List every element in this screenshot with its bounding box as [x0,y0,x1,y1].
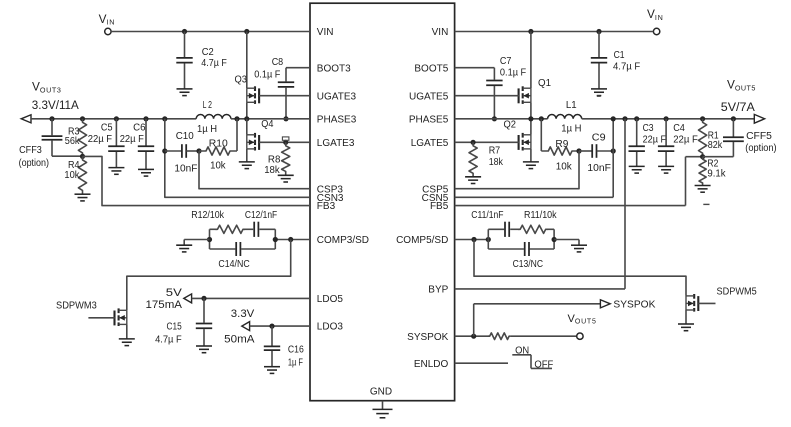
svg-text:10k: 10k [556,162,573,173]
wire UGATE5 [455,95,519,97]
artifact dash near FB5 [703,203,709,205]
svg-text:18k: 18k [489,157,504,168]
svg-text:3.3V/11A: 3.3V/11A [32,100,79,112]
IC controller body [310,3,455,401]
junction C3 on VOUT5 rail [634,116,639,121]
ground COMP5 network [571,245,587,252]
label VIN right [647,7,663,22]
svg-text:CFF3: CFF3 [19,145,42,156]
capacitor CFF3 [42,119,83,156]
svg-text:C9: C9 [592,133,606,144]
capacitor C12 [254,222,258,237]
node ON OFF logic symbol [512,355,552,369]
resistor R8 [282,142,290,175]
wire BYP net [455,119,625,289]
svg-text:COMP5/SD: COMP5/SD [396,235,448,246]
capacitor C4 [658,119,674,167]
ground IC GND [373,401,393,418]
junction R8 on LGATE3 [283,140,288,145]
junction C7 on PHASE5 [492,116,497,121]
capacitor C3 [629,119,645,167]
ground Q2 source [523,162,539,169]
pin GND label [370,386,392,397]
junction C8 on PHASE3 [283,116,288,121]
svg-text:C16: C16 [288,344,304,355]
capacitor C9 [579,144,613,158]
svg-text:R9: R9 [555,139,568,150]
node VOUT3 output arrow [21,115,31,123]
svg-text:(option): (option) [19,158,49,169]
capacitor C15 [196,298,212,346]
label R10 value [209,139,228,172]
svg-text:SDPWM5: SDPWM5 [717,286,758,297]
resistor R9 [541,147,579,155]
junction CSN3 branch on VOUT3 rail [162,116,167,121]
wire LGATE5 [455,141,519,143]
ground SDPWM3 [119,339,135,346]
wire SDPWM5 drain net [474,240,686,296]
wire LGATE3 [259,141,310,143]
junction R10 branch on VOUT3 rail [234,116,239,121]
svg-text:5V/7A: 5V/7A [721,102,755,114]
label L2 value [197,100,217,135]
label C3 value [643,123,667,146]
svg-text:Q4: Q4 [261,119,274,130]
svg-text:56k: 56k [65,136,81,147]
svg-text:ON: ON [515,346,529,357]
artifact mark above R8 [282,137,289,140]
svg-text:LDO3: LDO3 [317,322,344,333]
ground C15 [196,346,212,353]
junction R1 on VOUT5 rail [700,116,705,121]
junction C10 left node [162,148,167,153]
junction R7 on LGATE5 [471,140,476,145]
resistor R4 [78,156,86,194]
label C14/NC [218,259,249,270]
label C8 value [254,57,283,81]
wire LDO5 [192,297,310,299]
transistor SDPWM5 [686,294,716,324]
label R2 value [707,159,726,180]
svg-text:R11/10k: R11/10k [524,210,557,221]
capacitor CFF5 [703,119,744,157]
junction Q1 source on PHASE5 [528,116,533,121]
wire UGATE3 [259,95,310,97]
node LDO3 arrow [242,322,250,331]
wire ENLDO pin [455,362,508,364]
capacitor C13 [525,242,529,256]
svg-text:LDO5: LDO5 [317,294,344,305]
svg-text:1µ H: 1µ H [561,124,581,135]
transistor Q4 [247,119,259,162]
ground R7 [465,177,481,184]
wire SYSPOK output branch [474,304,601,336]
ground C3 [629,166,645,173]
wire CSP5 net [455,151,579,189]
node VOUT5 sense terminal [577,333,583,339]
resistor R9 branch wire [540,119,542,151]
node VIN right terminal [653,28,659,34]
wire COMP3/SD pin [275,239,310,241]
label C2 value [201,47,227,69]
junction COMP3 network right [273,237,278,242]
label 5V 175mA [146,287,183,311]
svg-text:C6: C6 [133,123,146,134]
wire CSP3 net [199,151,310,189]
resistor R11 [518,225,548,233]
svg-text:3.3V: 3.3V [231,308,255,320]
inductor L2 [196,114,231,118]
label 3.3V/11A [32,100,79,112]
ground R8 [278,175,294,182]
svg-text:OFF: OFF [534,360,553,371]
svg-text:C4: C4 [673,123,685,134]
svg-text:VIN: VIN [317,27,334,38]
junction C15 on LDO5 [201,296,206,301]
inductor L1 [548,115,582,119]
junction R9 C9 node [576,148,581,153]
svg-text:L1: L1 [566,100,577,111]
junction R3 R4 divider node [80,154,85,159]
transistor Q1 [519,32,531,119]
junction R3 on VOUT3 rail [80,116,85,121]
svg-text:82k: 82k [708,140,723,151]
label CFF5 option [745,131,776,154]
junction Q4 drain on VOUT3 rail [244,116,249,121]
ground R4 [75,194,91,201]
capacitor C1 [591,32,607,89]
svg-text:0.1µ F: 0.1µ F [254,70,280,81]
wire CSN5 net [455,119,614,198]
wire BOOT3 [286,67,310,69]
label SDPWM5 [717,286,758,297]
ground C6 [138,169,154,176]
ground C16 [264,367,280,374]
label C15 value [155,322,182,346]
svg-text:C11/1nF: C11/1nF [471,210,503,221]
svg-text:SYSPOK: SYSPOK [613,299,655,310]
wire COMP5 network frame [488,229,554,249]
wire BOOT5 [455,67,495,69]
junction COMP3 network left [207,237,212,242]
svg-text:1µ H: 1µ H [197,124,217,135]
svg-text:UGATE5: UGATE5 [409,91,449,102]
svg-text:CFF5: CFF5 [746,131,772,142]
svg-text:1µ F: 1µ F [288,357,303,368]
svg-text:175mA: 175mA [146,299,183,311]
capacitor C11 [505,222,509,237]
capacitor C7 [486,68,502,119]
resistor SYSPOK series [488,333,510,340]
capacitor C6 [138,119,154,170]
junction C2 on VIN [182,29,187,34]
svg-text:SDPWM3: SDPWM3 [56,301,97,312]
junction C5 on VOUT3 rail [114,116,119,121]
label R1 value [708,130,723,151]
svg-text:10nF: 10nF [587,163,611,174]
wire FB3 net [83,156,311,205]
resistor R10 [199,119,237,155]
svg-text:R8: R8 [268,155,281,166]
ground R2 [695,186,711,193]
IC right pin labels [396,27,449,370]
label R11/10k [524,210,557,221]
wire COMP3 network frame [210,229,276,249]
svg-text:C8: C8 [272,57,284,68]
svg-text:PHASE3: PHASE3 [317,114,357,125]
label Q4 [261,119,274,130]
svg-text:10k: 10k [64,170,80,181]
label C6 value [120,123,146,146]
junction C6 on VOUT3 rail [143,116,148,121]
svg-text:C15: C15 [167,322,183,333]
label VOUT3 [32,80,61,95]
wire FB5 net [455,157,703,206]
junction SYSPOK branch [471,334,476,339]
junction C1 on VIN [596,29,601,34]
junction SDPWM3 tap on COMP3 [288,237,293,242]
wire COMP3 ground stub [184,240,209,246]
node VIN input terminal [105,28,111,34]
wire VIN left rail [111,31,310,33]
wire COMP5/SD pin [455,239,489,241]
svg-text:C10: C10 [176,131,194,142]
ground SDPWM5 [678,324,694,331]
svg-text:22µ F: 22µ F [88,134,112,145]
svg-text:VIN: VIN [432,27,449,38]
ground C2 [177,89,193,96]
svg-text:GND: GND [370,386,392,397]
svg-text:PHASE5: PHASE5 [409,114,449,125]
svg-text:BYP: BYP [428,285,448,296]
wire LDO3 [250,325,310,327]
label R4 value [64,160,80,181]
node VOUT5 output arrow [754,114,764,123]
transistor Q3 [247,32,259,119]
svg-text:Q2: Q2 [504,120,517,131]
label R9 value [555,139,572,173]
svg-text:SYSPOK: SYSPOK [407,332,448,343]
label C7 value [500,56,526,79]
resistor R12 [216,225,246,233]
svg-text:L 2: L 2 [203,100,213,111]
svg-text:COMP3/SD: COMP3/SD [317,235,369,246]
svg-text:4.7µ F: 4.7µ F [613,61,640,72]
label C9 value [587,133,611,174]
svg-text:18k: 18k [264,165,280,176]
label C13/NC [513,259,543,270]
wire VOUT3 rail to L2 [31,118,196,120]
capacitor C14 [236,242,240,256]
svg-text:22µ F: 22µ F [120,134,144,145]
wire SDPWM3 drain net [127,240,291,311]
svg-text:(option): (option) [745,143,776,154]
junction CFF5 on VOUT5 rail [731,116,736,121]
junction C16 on LDO3 [269,324,274,329]
label R7 value [489,145,504,168]
svg-text:4.7µ F: 4.7µ F [155,335,182,346]
svg-text:22µ F: 22µ F [643,135,667,146]
junction BYP on VOUT5 rail [622,116,627,121]
wire to VOUT5 sense terminal [511,335,577,337]
svg-text:LGATE5: LGATE5 [411,138,449,149]
svg-text:R10: R10 [209,139,228,150]
junction Q1 drain on VIN [528,29,533,34]
resistor R3 [78,119,86,157]
label Q2 [504,120,517,131]
transistor SDPWM3 [88,308,126,339]
label CFF3 option [19,145,49,169]
label ON [515,346,529,357]
svg-text:C13/NC: C13/NC [513,259,543,270]
junction CSN5 on VOUT5 rail [611,116,616,121]
label C5 value [88,123,113,146]
label Q1 [538,78,551,89]
svg-text:C2: C2 [202,47,214,58]
transistor Q2 [519,119,531,162]
node LDO5 arrow [184,294,192,303]
label OFF [534,360,553,371]
label C10 value [174,131,197,175]
artifact dash near UGATE5 [597,95,601,97]
svg-text:C5: C5 [101,123,113,134]
svg-text:C7: C7 [500,56,512,67]
resistor R1 [699,119,707,157]
capacitor C16 [264,326,280,367]
label 3.3V 50mA [224,308,255,345]
svg-text:BOOT5: BOOT5 [414,63,448,74]
svg-text:Q3: Q3 [235,75,248,86]
capacitor C5 [108,119,124,168]
node SYSPOK arrow [600,300,610,308]
resistor R2 [699,157,706,186]
label VOUT5 sense [568,313,596,326]
wire CSN3 net [165,119,310,198]
svg-text:Q1: Q1 [538,78,551,89]
ground Q4 source [239,162,255,169]
svg-text:5V: 5V [166,287,183,299]
junction SDPWM5 tap on COMP5 [471,237,476,242]
svg-text:R12/10k: R12/10k [191,210,225,221]
junction COMP5 network right [552,237,557,242]
svg-text:C1: C1 [614,50,625,61]
svg-text:22µ F: 22µ F [673,135,698,146]
svg-text:FB3: FB3 [317,201,336,212]
IC left pin labels [317,27,369,333]
capacitor C2 [176,32,192,89]
junction C4 on VOUT5 rail [664,116,669,121]
svg-text:9.1k: 9.1k [707,168,726,179]
svg-text:FB5: FB5 [430,201,449,212]
junction COMP5 network left [486,237,491,242]
label VIN left [99,12,115,27]
ground C5 [108,168,124,175]
wire VOUT5 rail [582,118,755,120]
label R8 value [264,155,281,177]
ground COMP3 network [176,245,192,252]
svg-text:R7: R7 [489,145,501,156]
label 5V/7A [721,102,755,114]
label C1 value [613,50,640,73]
junction R1 R2 divider node [700,154,705,159]
wire PHASE3 segment [231,118,310,120]
label C11/1nF [471,210,503,221]
wire VIN right rail [455,31,654,33]
svg-text:C3: C3 [643,123,654,134]
svg-text:10k: 10k [210,161,226,172]
svg-text:UGATE3: UGATE3 [317,91,357,102]
capacitor C10 [165,144,199,158]
wire PHASE5 segment [455,118,548,120]
junction R9 branch on PHASE5 [539,116,544,121]
capacitor C8 [278,68,294,119]
label R12/10k [191,210,225,221]
label Q3 [235,75,248,86]
resistor R7 [469,142,477,177]
label VOUT5 [727,78,755,93]
wire SYSPOK pin [455,335,490,337]
svg-text:LGATE3: LGATE3 [317,138,355,149]
ground C4 [658,166,674,173]
ground C1 [591,89,607,96]
label SDPWM3 [56,301,97,312]
svg-text:0.1µ F: 0.1µ F [500,68,526,79]
junction CFF3 on VOUT3 rail [49,116,54,121]
svg-text:ENLDO: ENLDO [414,359,449,370]
svg-text:C14/NC: C14/NC [218,259,249,270]
svg-text:4.7µ F: 4.7µ F [201,58,227,69]
label C16 value [288,344,304,368]
wire COMP5 ground stub [554,240,579,246]
svg-text:50mA: 50mA [224,334,255,346]
svg-text:BOOT3: BOOT3 [317,63,351,74]
svg-text:10nF: 10nF [174,164,197,175]
label L1 value [561,100,581,134]
svg-text:C12/1nF: C12/1nF [245,210,277,221]
junction C9 CSN5 node [611,148,616,153]
label R3 value [65,126,81,147]
junction C10 R10 node [196,148,201,153]
label C4 value [673,123,698,146]
junction Q3 drain on VIN [244,29,249,34]
label C12/1nF [245,210,277,221]
label SYSPOK out [613,299,655,310]
